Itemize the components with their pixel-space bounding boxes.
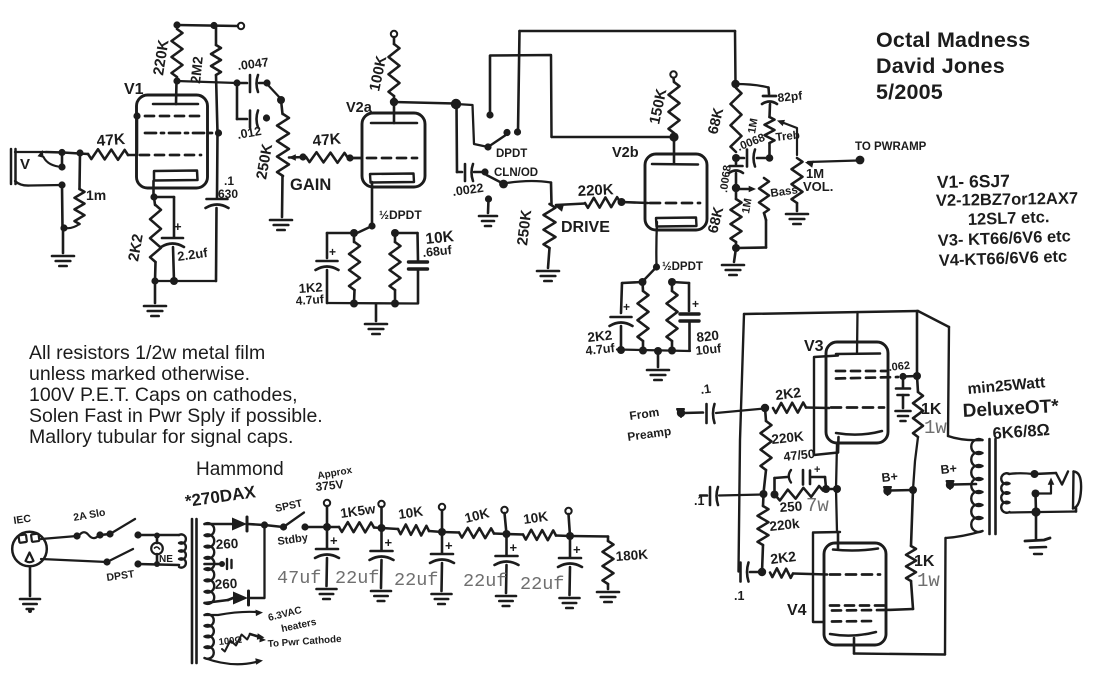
ground V2b cathode xyxy=(647,370,669,380)
node .012 right xyxy=(263,114,270,121)
capacitor .062 screen xyxy=(888,360,911,408)
ground DRIVE pot xyxy=(537,271,559,281)
node B+ n1 xyxy=(323,523,331,531)
label V4 xyxy=(787,602,807,619)
label .68uf xyxy=(422,243,453,260)
wire drive pot to ground xyxy=(548,248,550,268)
capacitor .1 a xyxy=(699,382,714,423)
node contact left V2a xyxy=(350,229,358,237)
wire 100K to junction xyxy=(394,96,455,104)
wire V2b cathode stem xyxy=(655,222,658,266)
speaker jack V notch xyxy=(1056,472,1068,485)
wire throw to bus1 xyxy=(518,31,520,132)
label Preamp xyxy=(626,424,672,444)
wire tall left riser xyxy=(739,314,745,572)
wire secondary top xyxy=(1009,472,1034,475)
wire down to .012 xyxy=(236,83,239,119)
node 68K mid xyxy=(732,154,740,162)
wire sleeve rail xyxy=(61,185,64,228)
resistor 68K upper xyxy=(705,88,741,152)
arrow jack tip xyxy=(38,150,63,167)
wire riser to OT bottom xyxy=(946,531,983,538)
node contact clean xyxy=(485,195,492,202)
V2b cathode box xyxy=(656,218,697,227)
svg-text:82pf: 82pf xyxy=(777,88,804,105)
capacitor .0068 vertical xyxy=(718,158,743,193)
wire to 4.7uf V2b xyxy=(621,282,643,313)
label DeluxeOT xyxy=(962,396,1060,422)
tube V3 xyxy=(826,342,888,443)
node B+ n4 xyxy=(503,530,511,538)
svg-text:VOL.: VOL. xyxy=(803,179,833,194)
node vb2 xyxy=(639,347,647,355)
wire V4 cathode stem xyxy=(853,638,856,654)
wire bottom return xyxy=(854,654,945,655)
label 260 upper xyxy=(215,536,238,552)
wire bus2 xyxy=(490,55,552,137)
heater tap top arrow xyxy=(205,610,264,617)
node mid rail b xyxy=(771,491,779,499)
label approx 375V xyxy=(315,465,354,494)
svg-text:22uf: 22uf xyxy=(335,568,379,589)
node tone bottom xyxy=(732,244,740,252)
wire bass bottom xyxy=(736,213,766,248)
switch arm mains lower xyxy=(107,549,133,562)
capacitor 82pf xyxy=(762,88,804,117)
svg-text:47K: 47K xyxy=(312,131,343,150)
resistor 220K bias b xyxy=(758,495,801,573)
wire to 1K2 cap xyxy=(327,233,354,258)
label 1w a xyxy=(924,417,947,439)
heater tap bottom arrow xyxy=(205,658,264,665)
svg-text:2M2: 2M2 xyxy=(187,55,206,84)
wire n5 to 180K xyxy=(570,535,608,538)
label Stdby xyxy=(277,532,310,548)
wire .1c to node xyxy=(750,571,762,574)
resistor 10K b xyxy=(442,505,507,538)
resistor 2K2 V2b xyxy=(638,282,649,350)
svg-text:V1- 6SJ7: V1- 6SJ7 xyxy=(937,171,1010,192)
V2a cathode box xyxy=(370,174,414,183)
V2a plate line xyxy=(371,122,417,125)
title line 2 xyxy=(876,54,1005,78)
resistor 820 V2b xyxy=(667,282,678,350)
svg-text:630: 630 xyxy=(218,187,238,201)
label B+ b xyxy=(940,461,958,477)
wire rail c-d xyxy=(826,488,837,491)
V4 lower dash xyxy=(832,620,876,623)
V2b plate line xyxy=(652,163,698,166)
svg-text:+: + xyxy=(174,219,182,234)
wire switch to lamp bottom xyxy=(138,564,179,565)
resistor 220K plate V1 xyxy=(150,29,182,77)
wire to 10uf cap xyxy=(672,282,689,311)
svg-text:+: + xyxy=(814,464,820,476)
wire .1b stub xyxy=(700,494,707,497)
wire 47K to grid xyxy=(128,154,137,157)
V1 grid dashdot xyxy=(145,132,216,135)
label 10K V2a xyxy=(425,228,456,248)
node pole2 xyxy=(499,180,508,189)
wire right return riser xyxy=(944,538,947,655)
potentiometer volume 1M xyxy=(792,158,834,203)
node tone top xyxy=(731,80,739,88)
V2a grid dashes xyxy=(352,157,417,160)
node rectifier out xyxy=(261,521,268,528)
node bass top xyxy=(732,184,740,192)
switch SPST standby xyxy=(265,513,309,531)
node fuse right xyxy=(96,531,103,538)
ground IEC xyxy=(20,599,40,613)
node jack tip lug xyxy=(58,163,65,170)
node top of 2M2 xyxy=(210,22,217,29)
node B+ n5 xyxy=(566,532,574,540)
tube V2a xyxy=(362,113,425,187)
potentiometer treble 1M xyxy=(746,117,800,158)
label V3 xyxy=(804,338,824,355)
label From xyxy=(628,405,660,423)
V1 grid dashes 1 xyxy=(145,115,201,118)
V1 cathode box xyxy=(154,171,198,181)
svg-text:+: + xyxy=(623,300,630,314)
wire plate bus right xyxy=(948,327,949,436)
label 7w xyxy=(806,495,829,517)
node 47K right xyxy=(346,154,353,161)
label 47uf xyxy=(277,568,321,589)
node vb1 xyxy=(617,346,625,354)
label V input xyxy=(20,156,30,173)
svg-text:IEC: IEC xyxy=(13,513,32,527)
resistor 1K 5w xyxy=(327,501,382,532)
svg-text:.062: .062 xyxy=(888,360,911,374)
svg-text:180K: 180K xyxy=(615,547,648,564)
capacitor 2.2uf xyxy=(161,197,209,281)
note line 4 xyxy=(29,405,323,427)
ground speaker xyxy=(1025,538,1050,554)
wire cathode bottom V2b xyxy=(617,350,690,352)
potentiometer 250K DRIVE xyxy=(514,204,555,248)
switch arm mains upper xyxy=(100,519,135,538)
label V2b xyxy=(612,145,639,161)
V3 grid dash xyxy=(831,406,884,409)
label 2K2 V2b xyxy=(587,327,613,345)
node cathode bottom right xyxy=(170,277,178,285)
wire plate into tube xyxy=(175,81,178,104)
wire contact to bus2 xyxy=(489,56,492,115)
node 220K right xyxy=(618,198,626,206)
terminal n3 xyxy=(439,504,445,510)
svg-text:V: V xyxy=(20,156,30,173)
node .0047 left xyxy=(233,79,240,86)
label half DPDT lower xyxy=(662,261,703,273)
resistor 2K2 cathode V1 xyxy=(125,197,161,281)
label 6.3VAC xyxy=(267,605,303,624)
node bottom 2 xyxy=(391,300,399,308)
node V1 cathode xyxy=(150,193,157,200)
note line 2 xyxy=(29,363,250,385)
svg-text:100V P.E.T. Caps on cathodes,: 100V P.E.T. Caps on cathodes, xyxy=(29,384,298,406)
title line 3 xyxy=(876,80,943,104)
wire tip stub xyxy=(61,153,64,168)
note line 5 xyxy=(29,426,293,448)
wire IEC to ground xyxy=(29,567,32,596)
ground V2a cathode xyxy=(365,324,387,334)
resistor 2M2 xyxy=(187,26,221,133)
svg-text:+: + xyxy=(445,538,453,553)
tube list line 1 xyxy=(937,171,1010,192)
note line 3 xyxy=(29,384,298,406)
wire .1a to grid node xyxy=(716,409,764,414)
capacitor 4.7uf V2a xyxy=(316,245,339,303)
PT primary coil xyxy=(179,534,186,567)
V4 screen dash a xyxy=(830,604,884,607)
wire V1 grid riser xyxy=(136,116,139,155)
wire cathode network bottom V2a xyxy=(327,302,418,305)
wire B+ b to OT tap xyxy=(953,483,976,486)
node mid rail d xyxy=(833,485,841,493)
wire plate node xyxy=(177,81,237,83)
resistor 100K xyxy=(366,37,399,96)
tube list line 4 xyxy=(938,227,1072,250)
svg-text:2K2: 2K2 xyxy=(769,548,797,567)
resistor 220K bias a xyxy=(761,408,805,493)
wire rectifier rail xyxy=(263,525,265,598)
label GAIN xyxy=(290,176,331,194)
wire screen rail down xyxy=(911,490,913,546)
wire V2b plate stem xyxy=(673,137,676,164)
wire B+ a xyxy=(890,489,913,492)
wire HV bottom to diode xyxy=(205,598,234,603)
PT HV secondary xyxy=(205,523,215,604)
wire to pwramp xyxy=(805,161,858,168)
wire V3 cathode stem xyxy=(837,437,840,453)
ground volume xyxy=(786,214,808,224)
node mid rail c xyxy=(822,485,830,493)
svg-text:DRIVE: DRIVE xyxy=(561,219,610,236)
label 47/50 xyxy=(783,447,816,464)
svg-text:10uf: 10uf xyxy=(695,341,723,358)
svg-text:250: 250 xyxy=(779,498,803,515)
capacitor .1 c xyxy=(734,563,749,604)
svg-text:V2b: V2b xyxy=(612,145,639,161)
node jack sleeve xyxy=(58,181,65,188)
wire V3 cathode down xyxy=(836,443,837,532)
terminal n2 xyxy=(378,501,384,507)
node contact right V2a xyxy=(391,229,399,237)
svg-text:½DPDT: ½DPDT xyxy=(662,261,703,273)
wire contact to ground xyxy=(487,199,490,213)
capacitor .0068 slope xyxy=(736,132,770,167)
label DRIVE xyxy=(561,219,610,236)
svg-text:B+: B+ xyxy=(881,469,899,485)
svg-text:TO PWRAMP: TO PWRAMP xyxy=(855,141,927,153)
svg-text:½DPDT: ½DPDT xyxy=(379,208,422,222)
node vb3 xyxy=(654,347,662,355)
svg-text:47uf: 47uf xyxy=(277,568,321,589)
svg-text:.1: .1 xyxy=(694,494,704,508)
node screen ext b xyxy=(913,372,921,380)
bass feed arrow xyxy=(736,186,756,193)
wire speaker mid stem xyxy=(1034,494,1037,513)
resistor 10K V2a xyxy=(390,233,401,303)
svg-text:All resistors 1/2w metal film: All resistors 1/2w metal film xyxy=(29,342,265,364)
svg-text:V3: V3 xyxy=(804,338,824,355)
wire V2a plate xyxy=(393,102,396,123)
wire to ground V1 cathode xyxy=(154,281,157,303)
title line 1 xyxy=(876,28,1030,52)
node 47K left xyxy=(299,153,306,160)
svg-text:B+: B+ xyxy=(940,461,958,477)
label DPST xyxy=(106,568,136,584)
label CLN/OD xyxy=(494,167,538,179)
node screen rail xyxy=(909,486,917,494)
tube list line 5 xyxy=(939,248,1068,270)
wire pole2 to drive pot xyxy=(504,181,552,204)
wire preamp to .1 xyxy=(684,411,703,414)
node V2b cathode pole xyxy=(653,263,660,270)
wire junction to switch pole1 xyxy=(456,104,488,147)
terminal supply V1 xyxy=(238,23,244,29)
label 22uf b xyxy=(394,570,438,591)
node B+ feed a xyxy=(883,487,891,495)
svg-text:47K: 47K xyxy=(96,131,126,150)
node fuse left xyxy=(73,532,80,539)
potentiometer 250K GAIN xyxy=(253,100,289,217)
diode bottom xyxy=(233,591,249,605)
switch arm pole1 xyxy=(488,134,508,148)
svg-text:1K: 1K xyxy=(914,553,935,570)
svg-text:DPDT: DPDT xyxy=(496,148,527,160)
svg-text:1w: 1w xyxy=(917,570,940,592)
treble wiper xyxy=(777,120,797,155)
resistor 150K xyxy=(646,71,679,133)
label SPST xyxy=(274,497,304,515)
node B+ n2 xyxy=(378,524,386,532)
V3 plate line xyxy=(836,352,880,355)
label 1w b xyxy=(917,570,940,592)
PT core xyxy=(192,519,197,663)
wire top diag xyxy=(918,311,949,327)
node .0022 out xyxy=(481,168,488,175)
wire diode to node xyxy=(248,524,264,525)
note line 1 xyxy=(29,342,265,364)
node treble bottom xyxy=(766,154,774,162)
wire top supply bus V1 xyxy=(177,25,238,26)
label Hammond xyxy=(196,459,284,480)
wire tip to jack xyxy=(1035,473,1057,474)
V1 plate line xyxy=(153,103,198,106)
wire terminal n4 stem xyxy=(505,513,507,534)
svg-text:V1: V1 xyxy=(124,81,144,98)
node contact left V2b xyxy=(639,278,647,286)
label 820 xyxy=(696,328,720,345)
wire junction down to .0022 xyxy=(455,104,458,172)
node B+ feed b xyxy=(946,481,954,489)
wire jack to 47K xyxy=(46,152,88,154)
node 1M bottom xyxy=(60,224,67,231)
svg-text:7w: 7w xyxy=(806,495,829,517)
label min 25Watt xyxy=(967,374,1046,398)
speaker jack sleeve bar xyxy=(1073,472,1081,509)
ground tone stack xyxy=(722,265,744,275)
terminal n4 xyxy=(501,507,507,513)
resistor 2K2 V3 grid xyxy=(773,384,806,413)
diode top xyxy=(232,517,247,531)
label heaters xyxy=(280,617,318,635)
node 100K bottom xyxy=(390,98,398,106)
capacitor .012 xyxy=(236,111,262,142)
wire bus2 to V2b grid node xyxy=(552,136,674,138)
svg-text:22uf: 22uf xyxy=(394,570,438,591)
wire terminal n1 xyxy=(326,506,329,527)
resistor 10K a xyxy=(382,504,443,536)
svg-text:+: + xyxy=(329,245,336,259)
tube V1 xyxy=(137,95,208,188)
neon lamp NE xyxy=(151,533,163,568)
resistor 68K lower xyxy=(705,188,741,247)
label V1 xyxy=(124,81,144,98)
svg-text:CLN/OD: CLN/OD xyxy=(494,167,538,179)
svg-text:260: 260 xyxy=(215,536,238,552)
wire secondary bottom xyxy=(1010,508,1076,513)
label 22uf a xyxy=(335,568,379,589)
svg-text:375V: 375V xyxy=(315,477,344,494)
node B+ n3 xyxy=(438,528,446,536)
svg-text:NE: NE xyxy=(159,554,173,565)
node top of 220K xyxy=(173,21,180,28)
ground input xyxy=(52,256,74,266)
svg-text:Solen Fast in Pwr Sply if poss: Solen Fast in Pwr Sply if possible. xyxy=(29,405,323,427)
capacitor .0047 xyxy=(237,55,270,92)
wire .1b to rail xyxy=(719,495,764,496)
wire top feedback bus xyxy=(744,311,918,314)
node GAIN top xyxy=(277,96,285,104)
wire HV top to diode xyxy=(205,523,233,526)
label NE xyxy=(159,554,173,565)
capacitor 22uf filter a xyxy=(370,528,394,601)
terminal 375V xyxy=(324,500,330,506)
wire to .68uf xyxy=(395,232,418,235)
capacitor .0022 xyxy=(451,164,484,199)
wire screen ext xyxy=(903,375,917,378)
svg-text:David Jones: David Jones xyxy=(876,54,1005,78)
svg-text:220k: 220k xyxy=(769,516,801,534)
input jack xyxy=(11,149,62,186)
centre tap cap xyxy=(205,559,232,569)
node coupling junction xyxy=(451,99,461,109)
svg-text:220K: 220K xyxy=(577,181,614,200)
node V1 grid xyxy=(133,112,140,119)
wire bus1 long xyxy=(520,30,736,33)
node switch upper xyxy=(134,531,141,538)
node screen ext a xyxy=(899,373,906,380)
node bottom 1 xyxy=(350,300,358,308)
svg-text:+: + xyxy=(330,533,338,548)
wire top to screen node xyxy=(916,311,919,375)
resistor 220K drive xyxy=(555,181,620,212)
svg-text:+: + xyxy=(573,542,581,557)
V3 screen dash a xyxy=(836,370,886,373)
switch arm pole2 xyxy=(487,175,503,183)
resistor 2K2 V4 grid xyxy=(769,548,797,578)
wire switch to lamp top xyxy=(138,534,179,537)
ground DPDT xyxy=(479,216,497,226)
terminal supply V2a xyxy=(391,31,397,37)
svg-text:V2-12BZ7or12AX7: V2-12BZ7or12AX7 xyxy=(936,190,1078,210)
label half DPDT upper xyxy=(379,208,422,222)
wire cathode stem xyxy=(152,181,155,197)
capacitor 47uf filter xyxy=(315,527,339,599)
